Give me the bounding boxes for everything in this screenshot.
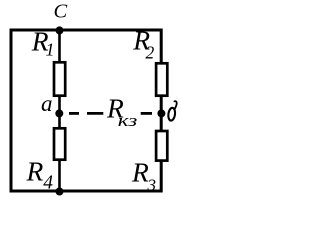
svg-text:C: C: [54, 1, 68, 23]
svg-text:1: 1: [46, 40, 55, 60]
svg-text:кз: кз: [118, 111, 138, 130]
svg-text:4: 4: [43, 173, 53, 194]
svg-text:3: 3: [147, 176, 157, 195]
svg-text:R: R: [131, 157, 149, 188]
svg-text:a: a: [41, 91, 53, 116]
svg-text:R: R: [26, 156, 44, 187]
svg-text:2: 2: [146, 43, 155, 63]
